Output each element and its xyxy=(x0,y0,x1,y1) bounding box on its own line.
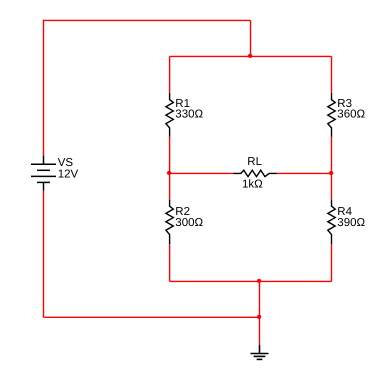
svg-text:12V: 12V xyxy=(58,169,79,181)
wire middle right segment xyxy=(277,172,332,174)
node junction middle left xyxy=(167,171,171,175)
ground symbol xyxy=(251,345,269,360)
wire left rail upper segment xyxy=(169,56,171,93)
wire left rail lower segment xyxy=(169,244,171,281)
wire right rail middle segment xyxy=(331,137,333,200)
svg-text:390Ω: 390Ω xyxy=(337,217,365,229)
resistor R4 symbol xyxy=(328,200,335,244)
wire bridge top rail xyxy=(170,55,332,57)
node junction top xyxy=(248,54,252,58)
wire left outer upper xyxy=(43,20,45,156)
wire left outer lower xyxy=(43,191,45,318)
svg-text:360Ω: 360Ω xyxy=(337,109,365,121)
resistor R3 symbol xyxy=(328,93,335,137)
svg-text:R4: R4 xyxy=(337,206,352,218)
wire middle left segment xyxy=(170,172,233,174)
svg-text:300Ω: 300Ω xyxy=(175,217,203,229)
wire bottom outer xyxy=(44,316,260,318)
wire top connector vertical xyxy=(250,20,252,56)
wire bridge bottom rail xyxy=(170,280,332,282)
svg-text:R2: R2 xyxy=(175,206,190,218)
node junction bottom rail xyxy=(257,279,261,283)
wire left rail middle segment xyxy=(169,137,171,200)
svg-text:1kΩ: 1kΩ xyxy=(242,179,263,191)
resistor R1 symbol xyxy=(166,93,173,137)
svg-text:RL: RL xyxy=(247,156,262,168)
voltage source VS battery symbol xyxy=(31,156,56,191)
svg-text:330Ω: 330Ω xyxy=(175,109,203,121)
wire ground drop xyxy=(259,281,261,344)
wire right rail lower segment xyxy=(331,244,333,281)
resistor RL symbol (horizontal) xyxy=(233,170,277,176)
node junction middle right xyxy=(329,171,333,175)
resistor R2 symbol xyxy=(166,200,173,244)
node junction bottom wire xyxy=(257,315,261,319)
wire right rail upper segment xyxy=(331,56,333,93)
wire top outer from VS to top node xyxy=(44,19,251,21)
svg-text:VS: VS xyxy=(58,157,74,169)
